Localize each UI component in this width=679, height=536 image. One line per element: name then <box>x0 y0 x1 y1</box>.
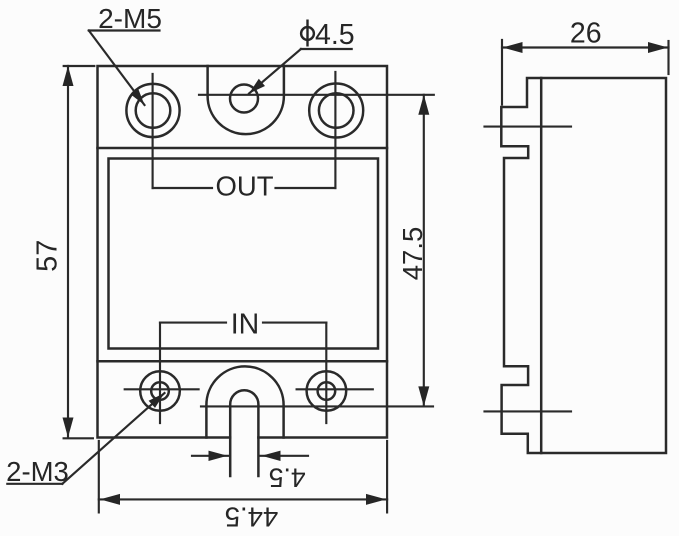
dim 44.5 dimension line <box>99 498 387 500</box>
phi4.5 underline <box>301 48 352 50</box>
bottom dome boss <box>206 366 283 437</box>
bottom-left hole outer <box>140 371 180 411</box>
side view outline <box>501 78 666 453</box>
bottom-right hole outer <box>307 371 347 411</box>
top middle hole phi4.5 <box>230 85 258 113</box>
arrowhead 47.5 bottom <box>418 386 429 406</box>
top-left hole inner <box>136 93 171 128</box>
top-right hole center line <box>334 72 336 188</box>
2-M3 underline <box>7 483 62 485</box>
arrowhead 44.5 right <box>366 494 386 505</box>
svg-text:2-M5: 2-M5 <box>98 3 162 34</box>
svg-text:2-M3: 2-M3 <box>6 456 69 487</box>
side view bottom screw center line <box>485 410 572 412</box>
dim 57 extension line bottom <box>64 437 93 439</box>
arrowhead 2-M3 leader <box>149 393 165 408</box>
top-left hole outer <box>126 84 179 137</box>
IN bracket lines <box>160 322 326 324</box>
label phi4.5 <box>301 19 355 51</box>
svg-text:4.5: 4.5 <box>315 19 355 51</box>
2-M5 underline <box>89 29 160 31</box>
dim 47.5 dimension line <box>423 95 425 407</box>
arrowhead 26 left <box>503 42 523 53</box>
bottom-left hole inner <box>151 382 169 400</box>
inner recessed panel <box>109 159 379 349</box>
dim 57 dimension line <box>67 66 69 437</box>
arrowhead 4.5 left <box>209 451 228 461</box>
dim 44.5 extension line right <box>386 441 388 512</box>
dim 57 extension line top <box>64 65 95 67</box>
bottom-right hole inner <box>318 382 336 400</box>
dim 4.5 left arrow line <box>192 455 229 457</box>
bottom-right hole center vertical <box>325 323 327 423</box>
front view body outline <box>98 66 388 438</box>
bottom-left hole horizontal center line <box>125 388 199 390</box>
side view inner vertical line <box>540 78 543 453</box>
top section divider line <box>98 147 388 150</box>
middle hole center line <box>199 94 434 96</box>
arrowhead 44.5 left <box>100 494 120 505</box>
top-right hole outer <box>309 84 363 138</box>
svg-text:57: 57 <box>32 240 64 272</box>
arrowhead 26 right <box>648 42 668 53</box>
bottom slot <box>230 390 258 476</box>
arrowhead 57 top <box>63 66 74 86</box>
OUT bracket lines <box>153 187 336 189</box>
arrowhead 57 bottom <box>63 418 74 438</box>
bottom slot center line <box>201 405 433 407</box>
top-right hole inner <box>319 93 354 128</box>
arrowhead 4.5 right <box>262 451 281 461</box>
dim 4.5 right arrow line <box>260 455 309 457</box>
svg-text:4.5: 4.5 <box>269 462 306 492</box>
phi4.5 leader line <box>249 49 301 94</box>
top middle U-notch <box>208 66 284 134</box>
svg-text:47.5: 47.5 <box>397 227 428 281</box>
bottom section divider line <box>98 360 388 363</box>
svg-text:IN: IN <box>231 309 260 341</box>
svg-text:OUT: OUT <box>215 171 273 202</box>
side view top screw center line <box>485 126 572 128</box>
arrowhead 2-M5 leader <box>131 89 145 106</box>
dim 26 extension line left <box>501 40 503 105</box>
dim 26 extension line right <box>667 41 669 74</box>
dim 26 dimension line <box>502 46 669 48</box>
top-left hole center line <box>152 74 154 188</box>
2-M3 leader line <box>62 393 164 484</box>
svg-text:26: 26 <box>570 18 602 50</box>
dim 44.5 extension line left <box>98 441 100 512</box>
bottom-right hole horizontal center line <box>297 388 373 390</box>
bottom-left hole center vertical <box>159 323 161 423</box>
2-M5 leader line <box>89 31 145 106</box>
svg-text:44.5: 44.5 <box>225 502 279 533</box>
arrowhead phi4.5 leader <box>249 79 265 94</box>
arrowhead 47.5 top <box>418 95 429 115</box>
